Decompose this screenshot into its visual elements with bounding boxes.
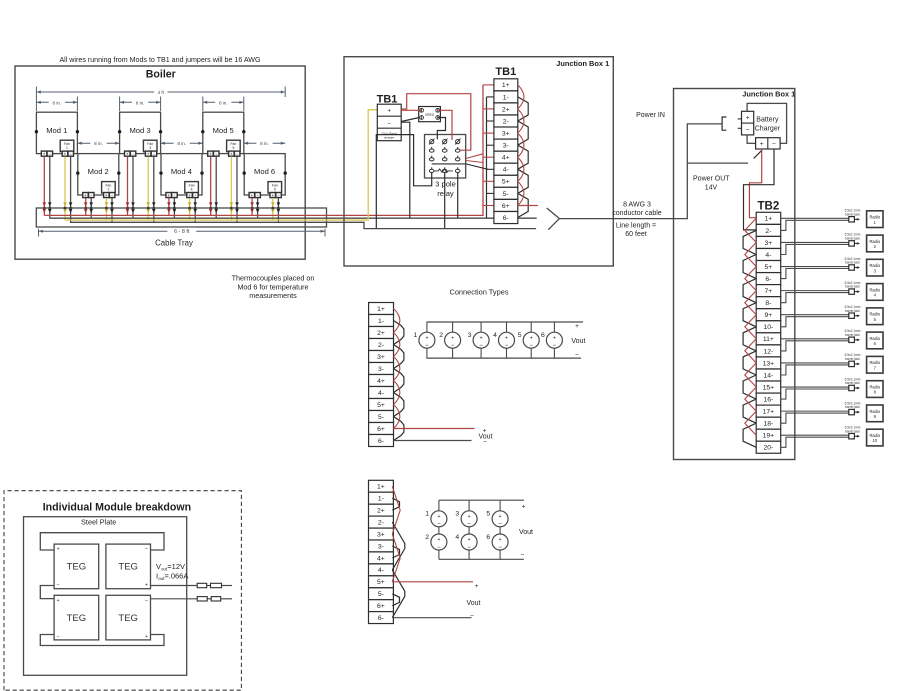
svg-text:5-: 5-	[378, 591, 384, 598]
svg-text:6+: 6+	[377, 603, 385, 610]
wire mod vertical 2	[48, 157, 52, 219]
wire black bus upper	[49, 217, 536, 219]
junction box 1 (right)	[674, 89, 795, 460]
svg-text:Mod 3: Mod 3	[129, 126, 150, 135]
svg-text:−: −	[746, 127, 750, 134]
svg-text:2-: 2-	[378, 342, 384, 349]
breakdown dashed border	[4, 491, 241, 691]
terminal - Mod 4 t3	[193, 193, 199, 198]
wire mod vertical 18	[173, 198, 177, 218]
svg-text:2-: 2-	[765, 228, 771, 235]
TEG 4	[106, 595, 151, 640]
svg-text:+: +	[530, 335, 533, 341]
svg-text:1+: 1+	[502, 82, 510, 89]
svg-text:+: +	[499, 514, 502, 520]
terminal - Mod 6 t3	[276, 193, 282, 198]
svg-text:3+: 3+	[377, 354, 385, 361]
source column 3 circuit2	[486, 500, 508, 559]
svg-text:5+: 5+	[377, 402, 385, 409]
source column 1 circuit2	[425, 500, 447, 559]
svg-text:Mod 6 for temperature: Mod 6 for temperature	[237, 282, 308, 291]
svg-text:+: +	[522, 503, 526, 510]
strip1 vout labels	[478, 428, 492, 447]
svg-text:16-: 16-	[763, 397, 773, 404]
svg-text:+: +	[57, 598, 60, 604]
svg-text:5: 5	[232, 146, 234, 150]
svg-text:1-: 1-	[378, 496, 384, 503]
junction box right title	[742, 90, 795, 99]
wire mod vertical 17	[167, 198, 171, 215]
svg-text:TEG: TEG	[67, 562, 87, 573]
wire pair to radio 9	[781, 411, 849, 423]
svg-text:Charger: Charger	[755, 126, 781, 133]
svg-text:10: 10	[873, 438, 878, 443]
svg-text:−: −	[529, 343, 533, 349]
wire TB1- to VREG	[401, 118, 419, 122]
svg-text:barrel jack: barrel jack	[845, 381, 860, 385]
barrel jack 8	[845, 377, 861, 390]
svg-text:19+: 19+	[763, 433, 775, 440]
svg-text:−: −	[505, 343, 509, 349]
svg-text:8 in.: 8 in.	[260, 141, 269, 146]
wire red TB1+ loop to relay	[401, 94, 471, 151]
battery charger box	[747, 103, 787, 143]
dimension 8 in gap 3	[244, 140, 285, 146]
svg-text:VREG: VREG	[425, 113, 435, 117]
wire pair to radio 8	[781, 387, 849, 399]
svg-text:−: −	[56, 634, 59, 640]
svg-text:Junction Box 1: Junction Box 1	[742, 90, 795, 99]
battery charger output block	[756, 138, 781, 149]
terminal - Mod 1 t3	[68, 151, 74, 156]
node dots Mod 1	[35, 130, 79, 133]
wire mod vertical 11	[230, 157, 234, 221]
wire mod vertical 15	[105, 198, 109, 220]
svg-text:3-: 3-	[503, 143, 509, 150]
barrel jack 6	[845, 329, 861, 342]
svg-text:1: 1	[414, 332, 418, 339]
svg-text:4+: 4+	[502, 155, 510, 162]
svg-text:6: 6	[486, 534, 490, 541]
wire mod vertical 12	[235, 157, 239, 223]
svg-text:−: −	[470, 613, 474, 620]
svg-text:+: +	[746, 115, 750, 122]
svg-text:4-: 4-	[378, 567, 384, 574]
svg-text:4 ft: 4 ft	[158, 90, 165, 95]
wire red TB1+ to VREG	[401, 109, 421, 111]
svg-text:10-: 10-	[763, 324, 773, 331]
svg-text:2: 2	[425, 534, 429, 541]
module Mod 2	[78, 154, 119, 195]
svg-text:+: +	[499, 537, 502, 543]
svg-text:5-: 5-	[503, 191, 509, 198]
svg-text:9+: 9+	[765, 312, 773, 319]
wire red battery to TB2	[749, 149, 761, 218]
svg-text:−: −	[467, 522, 471, 528]
svg-text:8 in.: 8 in.	[94, 141, 103, 146]
wire mod vertical 14	[89, 198, 93, 218]
terminal - Mod 5 t3	[234, 151, 240, 156]
svg-text:Individual Module breakdown: Individual Module breakdown	[43, 501, 191, 513]
svg-text:+: +	[188, 193, 191, 198]
svg-text:+: +	[57, 547, 60, 553]
node dots Mod 6	[243, 171, 287, 174]
terminal + Mod 3 t0	[125, 151, 131, 156]
svg-text:TB1: TB1	[495, 66, 516, 78]
terminal strip TB1	[494, 79, 518, 224]
svg-text:+: +	[468, 514, 471, 520]
wire black battery to TB2	[744, 149, 775, 230]
dimension 8 in width of Mod 5	[203, 97, 244, 112]
dimension 8 in width of Mod 3	[120, 97, 161, 112]
svg-text:TEG: TEG	[118, 613, 138, 624]
radio 8	[867, 381, 883, 398]
node dots Mod 4	[159, 171, 203, 174]
svg-text:1+: 1+	[765, 216, 773, 223]
circuit sources bus bottom	[427, 357, 582, 359]
wire pair to radio 1	[781, 218, 849, 230]
wire red relay fan-out	[466, 154, 483, 163]
wire relay col3 down	[457, 173, 459, 219]
svg-text:+: +	[145, 583, 148, 589]
radio 4	[867, 284, 883, 301]
svg-text:TEG: TEG	[118, 562, 138, 573]
barrel jack 5	[845, 305, 861, 318]
svg-text:−: −	[145, 547, 148, 553]
svg-text:3: 3	[149, 146, 151, 150]
svg-text:1-: 1-	[503, 94, 509, 101]
svg-text:+: +	[480, 335, 483, 341]
radio 7	[867, 356, 883, 373]
wire mod vertical 8	[152, 157, 156, 223]
svg-text:+: +	[145, 634, 148, 640]
steel plate label	[81, 518, 116, 527]
svg-text:6+: 6+	[377, 426, 385, 433]
note thermocouples	[232, 274, 315, 301]
terminal - Mod 5 t1	[214, 151, 220, 156]
svg-text:+: +	[387, 109, 391, 115]
svg-text:2: 2	[107, 188, 109, 192]
svg-text:barrel jack: barrel jack	[845, 285, 860, 289]
wire red 6+ out	[518, 205, 538, 207]
svg-text:−: −	[483, 439, 487, 446]
svg-text:TEG: TEG	[67, 613, 87, 624]
svg-text:Mod 6: Mod 6	[254, 167, 275, 176]
wire minus bus TB1 strip	[487, 97, 494, 218]
svg-text:Vout: Vout	[571, 338, 585, 345]
svg-text:+: +	[553, 335, 556, 341]
barrel jack 2	[845, 233, 861, 246]
terminal + Mod 6 t2	[270, 193, 276, 198]
wire mod vertical 21	[250, 198, 254, 215]
fan box Fan 3	[143, 140, 157, 151]
node dots Mod 2	[76, 171, 120, 174]
terminal + Mod 2 t2	[104, 193, 110, 198]
svg-text:+: +	[760, 141, 764, 148]
barrel jack 4	[845, 281, 861, 294]
svg-text:8 in.: 8 in.	[53, 100, 62, 105]
relay coil	[435, 169, 453, 172]
wire pair to radio 6	[781, 339, 849, 351]
fan box Fan 4	[185, 182, 199, 193]
wire mod vertical 5	[126, 157, 130, 216]
dimension 6-8 ft tray	[39, 228, 326, 237]
module Mod 1	[36, 112, 77, 153]
svg-text:−: −	[451, 343, 455, 349]
wire mod vertical 22	[256, 198, 260, 218]
terminal + Mod 1 t2	[62, 151, 67, 156]
svg-text:+: +	[437, 537, 440, 543]
svg-text:Connection Types: Connection Types	[449, 287, 508, 296]
note: all wires 16 AWG	[59, 56, 260, 64]
svg-text:1: 1	[66, 146, 68, 150]
label power in	[636, 112, 665, 119]
terminal - Mod 3 t3	[151, 151, 157, 156]
circuit2 bus bottom	[439, 558, 524, 560]
crimp connectors + lead	[197, 583, 232, 587]
svg-text:12-: 12-	[763, 348, 773, 355]
TEG 1	[54, 544, 99, 589]
svg-text:+: +	[425, 335, 428, 341]
crimp connectors - lead	[197, 597, 232, 601]
svg-text:4-: 4-	[503, 167, 509, 174]
svg-text:1-: 1-	[378, 318, 384, 325]
svg-text:3+: 3+	[765, 240, 773, 247]
wire red strip1 out	[394, 428, 475, 430]
wire module output -	[151, 598, 198, 600]
wire red strip2 out	[392, 581, 473, 583]
wire mod vertical 13	[84, 198, 88, 215]
svg-text:3 pole: 3 pole	[435, 180, 456, 189]
svg-text:Vout: Vout	[466, 600, 480, 607]
svg-text:3+: 3+	[377, 531, 385, 538]
svg-text:20-: 20-	[763, 445, 773, 452]
svg-text:4+: 4+	[377, 555, 385, 562]
terminal - Mod 1 t1	[47, 151, 53, 156]
svg-text:2-: 2-	[503, 118, 509, 125]
svg-text:8 in.: 8 in.	[177, 141, 186, 146]
svg-text:barrel jack: barrel jack	[845, 405, 860, 409]
svg-text:−: −	[387, 121, 391, 127]
svg-text:2+: 2+	[377, 508, 385, 515]
wire pair to radio 3	[781, 267, 849, 279]
svg-text:barrel jack: barrel jack	[845, 237, 860, 241]
svg-text:Battery: Battery	[756, 117, 779, 124]
TB1 jumpers black	[518, 97, 528, 218]
svg-text:4+: 4+	[377, 378, 385, 385]
svg-text:−: −	[437, 522, 441, 528]
label 8 AWG cable	[612, 201, 662, 238]
circuit2 vout labels	[519, 503, 533, 558]
wire mod vertical 3	[63, 157, 67, 221]
wire mod vertical 16	[110, 198, 114, 222]
module Mod 4	[161, 154, 202, 195]
svg-text:6+: 6+	[502, 203, 510, 210]
strip2 small jumpers	[392, 498, 399, 606]
svg-text:2+: 2+	[377, 330, 385, 337]
svg-text:charger: charger	[384, 135, 395, 139]
wire yellow bus	[65, 110, 378, 220]
radio 5	[867, 308, 883, 325]
fan box Fan 1	[60, 140, 74, 151]
wire pair to radio 4	[781, 291, 849, 303]
svg-text:barrel jack: barrel jack	[845, 333, 860, 337]
svg-text:5+: 5+	[377, 579, 385, 586]
terminal + Mod 4 t0	[166, 193, 172, 198]
terminal - Mod 3 t1	[130, 151, 136, 156]
svg-text:3-: 3-	[378, 366, 384, 373]
source 5 circuit1	[518, 322, 539, 358]
svg-text:8-: 8-	[765, 300, 771, 307]
svg-text:3-: 3-	[378, 543, 384, 550]
connector plug	[722, 117, 726, 130]
connection types header	[449, 287, 508, 296]
svg-text:−: −	[145, 598, 148, 604]
wire mod vertical 20	[193, 198, 197, 222]
circuit2 bus top	[439, 499, 524, 501]
wire red plus stubs	[483, 85, 494, 206]
svg-text:conductor cable: conductor cable	[612, 210, 662, 217]
svg-text:−: −	[56, 583, 59, 589]
svg-text:1: 1	[425, 511, 429, 518]
svg-text:8 in.: 8 in.	[219, 100, 228, 105]
svg-text:+: +	[64, 151, 67, 156]
module Mod 6	[244, 154, 285, 195]
plate bus top staple	[40, 533, 164, 550]
plate bus left link	[40, 586, 54, 599]
svg-text:+: +	[43, 151, 46, 156]
battery charger input block	[738, 111, 754, 135]
terminal strip series example	[369, 303, 394, 447]
radio 6	[867, 332, 883, 349]
cable tray label	[155, 238, 193, 247]
source 2 circuit1	[439, 322, 460, 358]
strip1 jumpers black	[394, 321, 404, 441]
strip2 large jumpers	[392, 522, 405, 618]
terminal - Mod 2 t1	[89, 193, 95, 198]
svg-text:−: −	[437, 545, 441, 551]
svg-text:Boiler: Boiler	[146, 69, 176, 81]
svg-text:Steel Plate: Steel Plate	[81, 518, 116, 527]
svg-text:7+: 7+	[765, 288, 773, 295]
svg-text:−: −	[521, 552, 525, 559]
svg-text:2-: 2-	[378, 520, 384, 527]
wire mod vertical 10	[214, 157, 218, 219]
terminal + Mod 3 t2	[145, 151, 151, 156]
source 1 circuit1	[414, 322, 435, 358]
svg-text:13+: 13+	[763, 360, 775, 367]
junction box 1 title	[556, 59, 609, 68]
breakdown title	[43, 501, 191, 513]
wire mod vertical 23	[271, 198, 275, 220]
svg-text:−: −	[479, 343, 483, 349]
wire mod vertical 9	[209, 157, 213, 216]
fan box Fan 2	[102, 182, 116, 193]
svg-text:+: +	[147, 151, 150, 156]
terminal strip TB2	[756, 212, 781, 453]
TEG 2	[106, 544, 151, 589]
svg-text:+: +	[505, 335, 508, 341]
svg-text:4: 4	[191, 188, 193, 192]
wire mod vertical 4	[69, 157, 73, 223]
svg-text:6: 6	[274, 188, 276, 192]
svg-text:60 feet: 60 feet	[625, 231, 646, 238]
svg-text:6-: 6-	[378, 615, 384, 622]
dimension 8 in gap 2	[161, 140, 203, 146]
svg-text:Mod 2: Mod 2	[88, 167, 109, 176]
svg-text:4: 4	[493, 332, 497, 339]
svg-text:+: +	[251, 193, 254, 198]
wire pair to radio 10	[781, 435, 849, 447]
svg-text:1+: 1+	[377, 484, 385, 491]
module Mod 3	[120, 112, 161, 153]
svg-text:+: +	[84, 193, 87, 198]
barrel jack 9	[845, 401, 861, 414]
source 3 circuit1	[468, 322, 489, 358]
svg-text:Mod 1: Mod 1	[46, 126, 67, 135]
source 4 circuit1	[493, 322, 514, 358]
svg-text:Vout=12V: Vout=12V	[156, 562, 185, 572]
barrel jack 10	[845, 426, 861, 439]
svg-text:5: 5	[518, 332, 522, 339]
wire relay col2 down	[444, 173, 446, 229]
svg-text:8 AWG 3: 8 AWG 3	[623, 201, 651, 208]
svg-text:6-: 6-	[765, 276, 771, 283]
svg-text:−: −	[467, 545, 471, 551]
junction box 1 (middle)	[344, 57, 613, 266]
svg-text:Junction Box 1: Junction Box 1	[556, 59, 609, 68]
terminal + Mod 5 t2	[229, 151, 235, 156]
wire red bus	[44, 85, 483, 216]
svg-text:Thermocouples placed on: Thermocouples placed on	[232, 274, 315, 283]
dimension 8 in gap 1	[77, 140, 119, 146]
svg-text:+: +	[475, 583, 479, 590]
svg-text:3+: 3+	[502, 131, 510, 138]
boiler enclosure box	[15, 66, 305, 259]
wire black bus lower	[70, 222, 536, 228]
svg-text:All wires running from Mods to: All wires running from Mods to TB1 and j…	[59, 56, 260, 64]
wire pair to radio 5	[781, 315, 849, 327]
svg-text:relay: relay	[437, 189, 454, 198]
cable tray	[36, 208, 326, 227]
dimension 4 ft overall	[36, 87, 285, 98]
svg-text:+: +	[126, 151, 129, 156]
svg-text:5+: 5+	[502, 179, 510, 186]
wire module output +	[151, 585, 198, 587]
svg-text:11+: 11+	[763, 336, 774, 343]
disconnect switch	[754, 150, 763, 159]
svg-text:barrel jack: barrel jack	[845, 212, 860, 216]
svg-text:5: 5	[486, 511, 490, 518]
svg-text:5+: 5+	[765, 264, 773, 271]
svg-text:Mod 4: Mod 4	[171, 167, 192, 176]
svg-text:+: +	[105, 193, 108, 198]
terminal + Mod 5 t0	[208, 151, 214, 156]
radio 2	[867, 235, 883, 252]
svg-text:+: +	[167, 193, 170, 198]
wire power out	[687, 162, 748, 164]
svg-text:2: 2	[439, 332, 443, 339]
barrel jack 1	[845, 209, 861, 222]
fan box Fan 6	[268, 182, 282, 193]
svg-text:−: −	[772, 141, 776, 148]
svg-text:1+: 1+	[377, 306, 385, 313]
svg-text:Vout: Vout	[519, 529, 533, 536]
terminal block TB1 (charger)	[377, 104, 401, 141]
node dots Mod 3	[118, 130, 162, 133]
svg-text:Cable Tray: Cable Tray	[155, 238, 193, 247]
source 6 circuit1	[541, 322, 562, 358]
